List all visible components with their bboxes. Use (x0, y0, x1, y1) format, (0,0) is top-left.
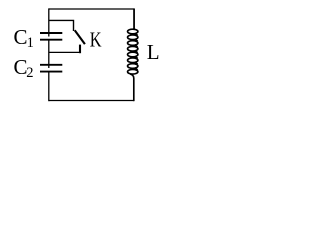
switch K lower contact (79, 45, 81, 54)
capacitor C2 (40, 65, 62, 72)
inductor L coil (127, 9, 137, 101)
wire right upper (133, 8, 135, 29)
svg-text:1: 1 (27, 35, 34, 51)
wire right lower (133, 79, 135, 101)
svg-text:L: L (147, 40, 160, 64)
wire left middle (48, 40, 50, 68)
wire switch lower branch (49, 51, 80, 53)
wire switch upper branch (49, 20, 74, 31)
switch K blade (75, 30, 85, 44)
wire top (49, 8, 134, 10)
svg-text:2: 2 (26, 65, 33, 81)
wire left upper (48, 8, 50, 36)
svg-text:K: K (90, 28, 102, 52)
svg-text:C: C (14, 25, 28, 49)
wire left lower (48, 72, 50, 102)
capacitor C1 (40, 33, 62, 40)
wire bottom (49, 100, 134, 102)
